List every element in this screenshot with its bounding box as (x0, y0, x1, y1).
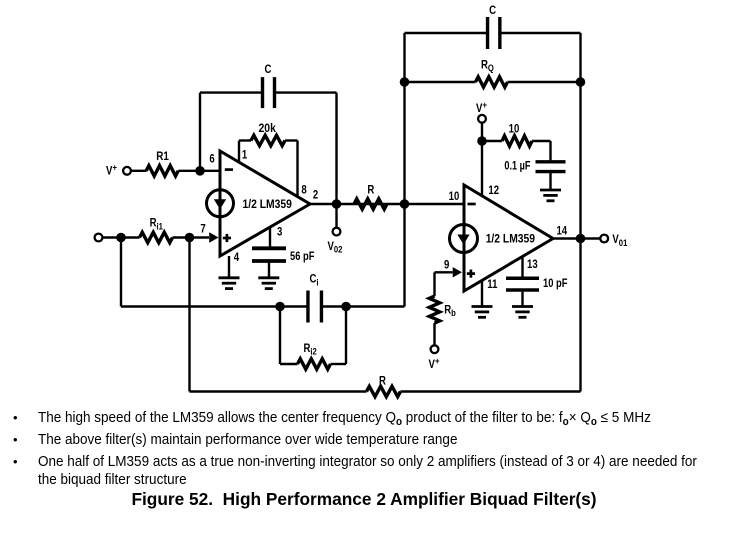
svg-text:4: 4 (234, 251, 239, 264)
svg-text:6: 6 (209, 152, 214, 165)
svg-text:12: 12 (488, 184, 499, 197)
svg-text:V+: V+ (476, 99, 487, 115)
svg-text:1: 1 (242, 149, 247, 162)
svg-text:56 pF: 56 pF (290, 250, 315, 263)
svg-text:8: 8 (301, 183, 306, 196)
svg-text:20k: 20k (258, 122, 276, 135)
svg-text:R1: R1 (156, 150, 169, 163)
svg-text:13: 13 (527, 258, 538, 271)
svg-text:Ci: Ci (310, 273, 319, 288)
svg-text:1/2 LM359: 1/2 LM359 (243, 198, 292, 211)
svg-text:1/2 LM359: 1/2 LM359 (486, 233, 535, 246)
svg-text:V01: V01 (612, 233, 627, 248)
svg-text:10: 10 (509, 123, 520, 136)
svg-text:7: 7 (200, 223, 205, 236)
svg-text:14: 14 (556, 224, 567, 237)
svg-text:V+: V+ (106, 161, 117, 177)
svg-text:9: 9 (444, 259, 449, 272)
svg-text:0.1 µF: 0.1 µF (504, 159, 530, 173)
svg-text:10: 10 (449, 190, 460, 203)
svg-text:C: C (265, 63, 272, 76)
svg-text:V+: V+ (429, 355, 440, 371)
svg-text:V02: V02 (328, 240, 343, 255)
svg-text:Ri1: Ri1 (150, 217, 163, 232)
svg-text:11: 11 (487, 278, 497, 291)
svg-text:2: 2 (313, 189, 318, 202)
svg-text:RQ: RQ (481, 58, 494, 73)
svg-text:Ri2: Ri2 (304, 342, 317, 357)
svg-text:R: R (367, 183, 374, 196)
svg-text:Rb: Rb (444, 303, 456, 318)
svg-text:C: C (489, 4, 496, 17)
svg-text:10 pF: 10 pF (543, 277, 568, 290)
svg-text:3: 3 (277, 226, 282, 239)
svg-text:R: R (379, 375, 386, 388)
